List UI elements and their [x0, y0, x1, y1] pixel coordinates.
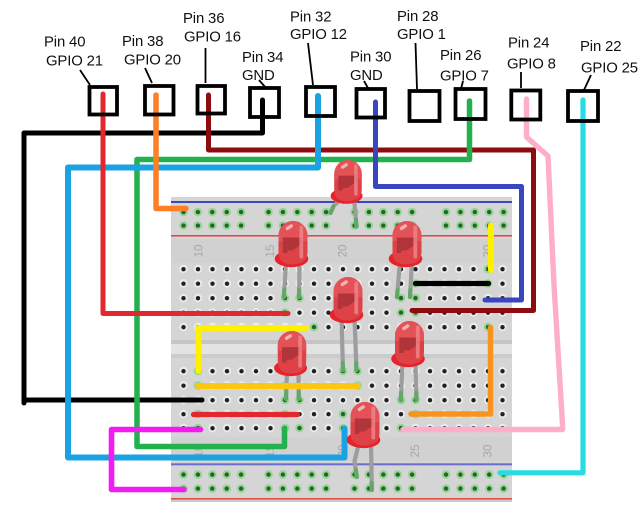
wire orange2: breadboard jumper right — [411, 328, 491, 415]
label Pin 32 GPIO 12 — [290, 10, 347, 44]
wire dodgerblue: Pin 32 GPIO 12 to breadboard — [68, 96, 345, 458]
svg-text:Pin 26: Pin 26 — [440, 48, 481, 64]
svg-text:GPIO 7: GPIO 7 — [440, 69, 489, 85]
LED D5 — [391, 321, 425, 367]
svg-text:15: 15 — [265, 245, 277, 258]
svg-text:10: 10 — [194, 245, 206, 258]
svg-text:Pin 38: Pin 38 — [122, 34, 163, 50]
leader line Pin 40 — [80, 70, 90, 85]
wire cyan: Pin 22 GPIO 25 to breadboard — [500, 100, 583, 473]
wire green: Pin 26 GPIO 7 to breadboard — [137, 101, 470, 447]
label Pin 22 GPIO 25 — [580, 39, 638, 77]
wire magenta: breadboard to ground rail — [112, 430, 201, 490]
pin header Pin 34 — [250, 88, 279, 117]
breadboard — [171, 197, 512, 502]
svg-text:30: 30 — [483, 445, 495, 458]
wire red2: breadboard jumper row i — [194, 412, 298, 417]
svg-text:GPIO 21: GPIO 21 — [46, 54, 103, 70]
leader line Pin 24 — [520, 72, 522, 88]
label Pin 38 GPIO 20 — [122, 34, 181, 69]
pin header Pin 36 — [198, 86, 226, 114]
pin header Pin 32 — [306, 87, 335, 116]
pin header Pin 28 — [410, 91, 440, 121]
pin header Pin 24 — [511, 91, 540, 120]
LED D3 — [330, 277, 364, 323]
leader line Pin 30 — [364, 81, 368, 88]
wire pink: Pin 24 GPIO 8 to breadboard — [403, 99, 563, 430]
svg-text:Pin 22: Pin 22 — [580, 39, 621, 55]
LED D6 — [274, 331, 307, 376]
wire black: Pin 34 GND to breadboard — [24, 100, 263, 403]
label Pin 36 GPIO 16 — [183, 11, 241, 46]
wire maroon: Pin 36 GPIO 16 to breadboard — [209, 95, 534, 311]
wire royalblue: Pin 30 GND to breadboard — [376, 102, 522, 300]
label Pin 34 GND — [242, 50, 283, 84]
svg-text:GPIO 12: GPIO 12 — [290, 27, 347, 43]
svg-text:Pin 32: Pin 32 — [290, 10, 331, 26]
svg-text:25: 25 — [410, 445, 422, 458]
leader line Pin 34 — [259, 80, 266, 88]
LED legs — [284, 197, 417, 490]
leader line Pin 38 — [145, 68, 152, 83]
LED D2 — [275, 221, 309, 267]
breadboard main grid holes — [179, 265, 506, 433]
wire amber: breadboard jumper row g — [198, 383, 358, 389]
label Pin 24 GPIO 8 — [507, 36, 556, 73]
pin header Pin 38 — [145, 86, 174, 115]
svg-text:GND: GND — [242, 68, 275, 84]
leader line Pin 28 — [416, 43, 418, 89]
svg-text:Pin 30: Pin 30 — [350, 50, 391, 66]
LED D7 — [347, 402, 381, 448]
svg-text:20: 20 — [338, 245, 350, 258]
svg-text:GPIO 8: GPIO 8 — [507, 57, 556, 73]
leader line Pin 36 — [205, 48, 207, 83]
wire red: Pin 40 GPIO 21 to breadboard — [103, 94, 288, 314]
pin header Pin 30 — [357, 89, 386, 118]
wire yellow2: breadboard jumper right — [488, 226, 494, 271]
label Pin 40 GPIO 21 — [44, 35, 103, 70]
wire yellow: breadboard jumper left — [199, 328, 307, 371]
pin header Pin 26 — [456, 89, 486, 119]
svg-text:Pin 40: Pin 40 — [44, 35, 85, 51]
svg-text:Pin 28: Pin 28 — [397, 9, 438, 25]
leader line Pin 32 — [308, 43, 313, 85]
LED D1 — [331, 160, 363, 204]
svg-text:Pin 36: Pin 36 — [183, 11, 224, 27]
pin header Pin 22 — [568, 91, 598, 121]
pin header Pin 40 — [90, 87, 118, 115]
label Pin 30 GND — [350, 50, 391, 85]
svg-text:GPIO 16: GPIO 16 — [184, 30, 241, 46]
breadboard column numbers — [194, 245, 495, 458]
LED D4 — [389, 221, 423, 267]
svg-text:Pin 34: Pin 34 — [242, 50, 283, 66]
wire black2: breadboard jumper row c — [416, 281, 489, 286]
LED leg tips in holes — [284, 207, 417, 490]
wire orange: Pin 38 GPIO 20 to breadboard — [156, 95, 186, 209]
label Pin 26 GPIO 7 — [440, 48, 489, 85]
label Pin 28 GPIO 1 — [397, 9, 446, 43]
svg-text:GPIO 20: GPIO 20 — [124, 53, 181, 69]
svg-text:GND: GND — [350, 68, 383, 84]
breadboard power rail holes — [179, 208, 508, 493]
svg-text:GPIO 25: GPIO 25 — [581, 61, 638, 77]
leader line Pin 22 — [584, 75, 591, 90]
svg-text:Pin 24: Pin 24 — [508, 36, 549, 52]
svg-text:GPIO 1: GPIO 1 — [397, 27, 446, 43]
leader line Pin 26 — [461, 81, 463, 89]
